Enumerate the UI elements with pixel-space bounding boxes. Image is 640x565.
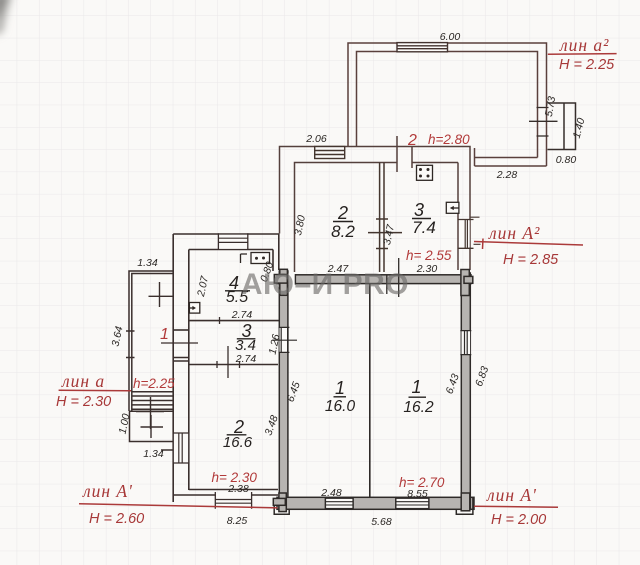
svg-text:8.25: 8.25 [227, 515, 248, 527]
svg-text:1.34: 1.34 [143, 448, 164, 460]
window section1 left [173, 433, 190, 463]
svg-text:2.30: 2.30 [416, 263, 438, 275]
survey cross 1 [149, 282, 174, 307]
svg-text:3.4: 3.4 [235, 337, 256, 354]
window main bottom 1 [325, 497, 353, 510]
svg-text:1: 1 [411, 377, 421, 397]
svg-text:2: 2 [337, 203, 348, 223]
section1 left inner wall [188, 250, 190, 491]
svg-text:h= 2.55: h= 2.55 [406, 248, 452, 263]
svg-text:8.2: 8.2 [331, 222, 355, 241]
svg-text:16.6: 16.6 [223, 434, 253, 451]
svg-text:лин A': лин A' [486, 485, 537, 505]
ticks on veranda right wall [529, 108, 558, 137]
room3.4 bottom wall [189, 364, 278, 366]
section1 right connector [278, 234, 280, 270]
svg-text:лин A': лин A' [82, 481, 133, 501]
window section1 top [218, 233, 247, 249]
svg-text:6.00: 6.00 [440, 31, 461, 43]
svg-text:2.06: 2.06 [305, 133, 327, 145]
window main right wall [460, 331, 471, 355]
main wall bottom band [277, 497, 474, 509]
svg-text:2.28: 2.28 [496, 169, 518, 181]
red line a2 [548, 53, 617, 56]
porch outer wall [129, 271, 173, 411]
svg-text:3: 3 [414, 200, 424, 220]
room 3 label [412, 200, 436, 237]
stove room4 [241, 253, 270, 264]
svg-text:7.4: 7.4 [412, 218, 436, 237]
window main left wall [273, 327, 298, 352]
middle inner wall top-left [295, 163, 459, 273]
svg-text:2.74: 2.74 [231, 309, 253, 321]
lower landing [130, 411, 173, 441]
section1 top wall [173, 233, 279, 235]
veranda bottom-right wall [475, 148, 547, 166]
svg-text:H = 2.60: H = 2.60 [89, 511, 144, 527]
main wall right band [461, 273, 470, 509]
svg-text:2: 2 [407, 132, 417, 149]
section1 left outer wall [172, 234, 174, 502]
room 4 label [225, 273, 250, 306]
svg-text:H = 2.85: H = 2.85 [503, 252, 559, 268]
room4 top wall [189, 249, 273, 251]
svg-text:0.80: 0.80 [556, 154, 577, 166]
main wall left band [279, 271, 288, 498]
svg-text:16.0: 16.0 [325, 398, 356, 415]
svg-text:лин a²: лин a² [559, 35, 609, 55]
scan corner smudge [0, 0, 13, 36]
svg-text:1: 1 [335, 378, 345, 398]
svg-text:1: 1 [160, 326, 169, 343]
ticks right wall middle [471, 217, 481, 244]
red line A' right [474, 506, 558, 507]
svg-text:h=2.25: h=2.25 [133, 376, 175, 391]
survey cross 3 [141, 415, 164, 438]
svg-text:8.55: 8.55 [407, 488, 428, 500]
svg-text:лин a: лин a [61, 371, 105, 391]
room 2 label [331, 203, 355, 241]
red line A' left [79, 504, 278, 508]
vent box room4 [189, 303, 199, 314]
porch inner wall [132, 274, 173, 412]
room 16.6 label [223, 417, 253, 451]
pillar BR [456, 493, 473, 514]
pillar TL [274, 269, 287, 295]
partition rooms 2/3 [368, 163, 402, 273]
right side step box [548, 103, 576, 150]
svg-text:2.38: 2.38 [227, 483, 249, 495]
red line A2 [474, 239, 583, 250]
room 3.4 label [235, 321, 256, 354]
window top veranda [397, 43, 448, 52]
svg-text:лин A²: лин A² [488, 223, 540, 243]
door jamb short line [386, 276, 388, 295]
svg-text:2.74: 2.74 [235, 353, 257, 365]
door gap top wall left [289, 273, 296, 285]
partition rooms 16.0/16.2 [369, 284, 371, 498]
pillar TR [461, 270, 473, 296]
middle inner wall right [457, 163, 459, 271]
vent box room3 [446, 202, 459, 213]
window right wall middle [458, 220, 474, 249]
pillar BL [273, 493, 289, 514]
corridor stub walls [173, 329, 189, 331]
svg-text:АЮ–И PRO: АЮ–И PRO [241, 268, 409, 301]
bottom wall room 16.6 [173, 490, 278, 496]
svg-text:H = 2.30: H = 2.30 [56, 394, 111, 410]
survey cross 2 [136, 397, 164, 429]
red line a [59, 389, 131, 392]
veranda inner wall [357, 52, 538, 158]
svg-text:h=2.80: h=2.80 [428, 132, 470, 147]
middle outer wall [280, 147, 471, 271]
svg-text:H = 2.25: H = 2.25 [559, 57, 615, 73]
window main bottom 2 [396, 497, 429, 510]
veranda outer wall [348, 43, 547, 166]
room4 bottom wall [189, 320, 281, 322]
ticks section1 [161, 317, 240, 378]
room4 right wall [272, 250, 274, 272]
stove room3 [417, 165, 433, 180]
svg-text:H = 2.00: H = 2.00 [491, 512, 546, 528]
svg-text:2.48: 2.48 [320, 487, 342, 499]
steps [129, 392, 173, 412]
room 16.0 label [325, 378, 356, 415]
room 16.2 label [403, 377, 434, 416]
porch wall ticks [126, 331, 135, 358]
graph paper grid [0, 0, 1, 1]
window top middle wall [315, 147, 345, 159]
main wall top band [277, 275, 471, 284]
svg-text:5.68: 5.68 [371, 516, 392, 528]
door jamb line top wall right [398, 258, 400, 297]
window room16.6 bottom [215, 492, 251, 509]
door jambs veranda->room2 [397, 136, 412, 172]
svg-text:16.2: 16.2 [403, 399, 434, 416]
svg-text:1.34: 1.34 [137, 257, 158, 269]
